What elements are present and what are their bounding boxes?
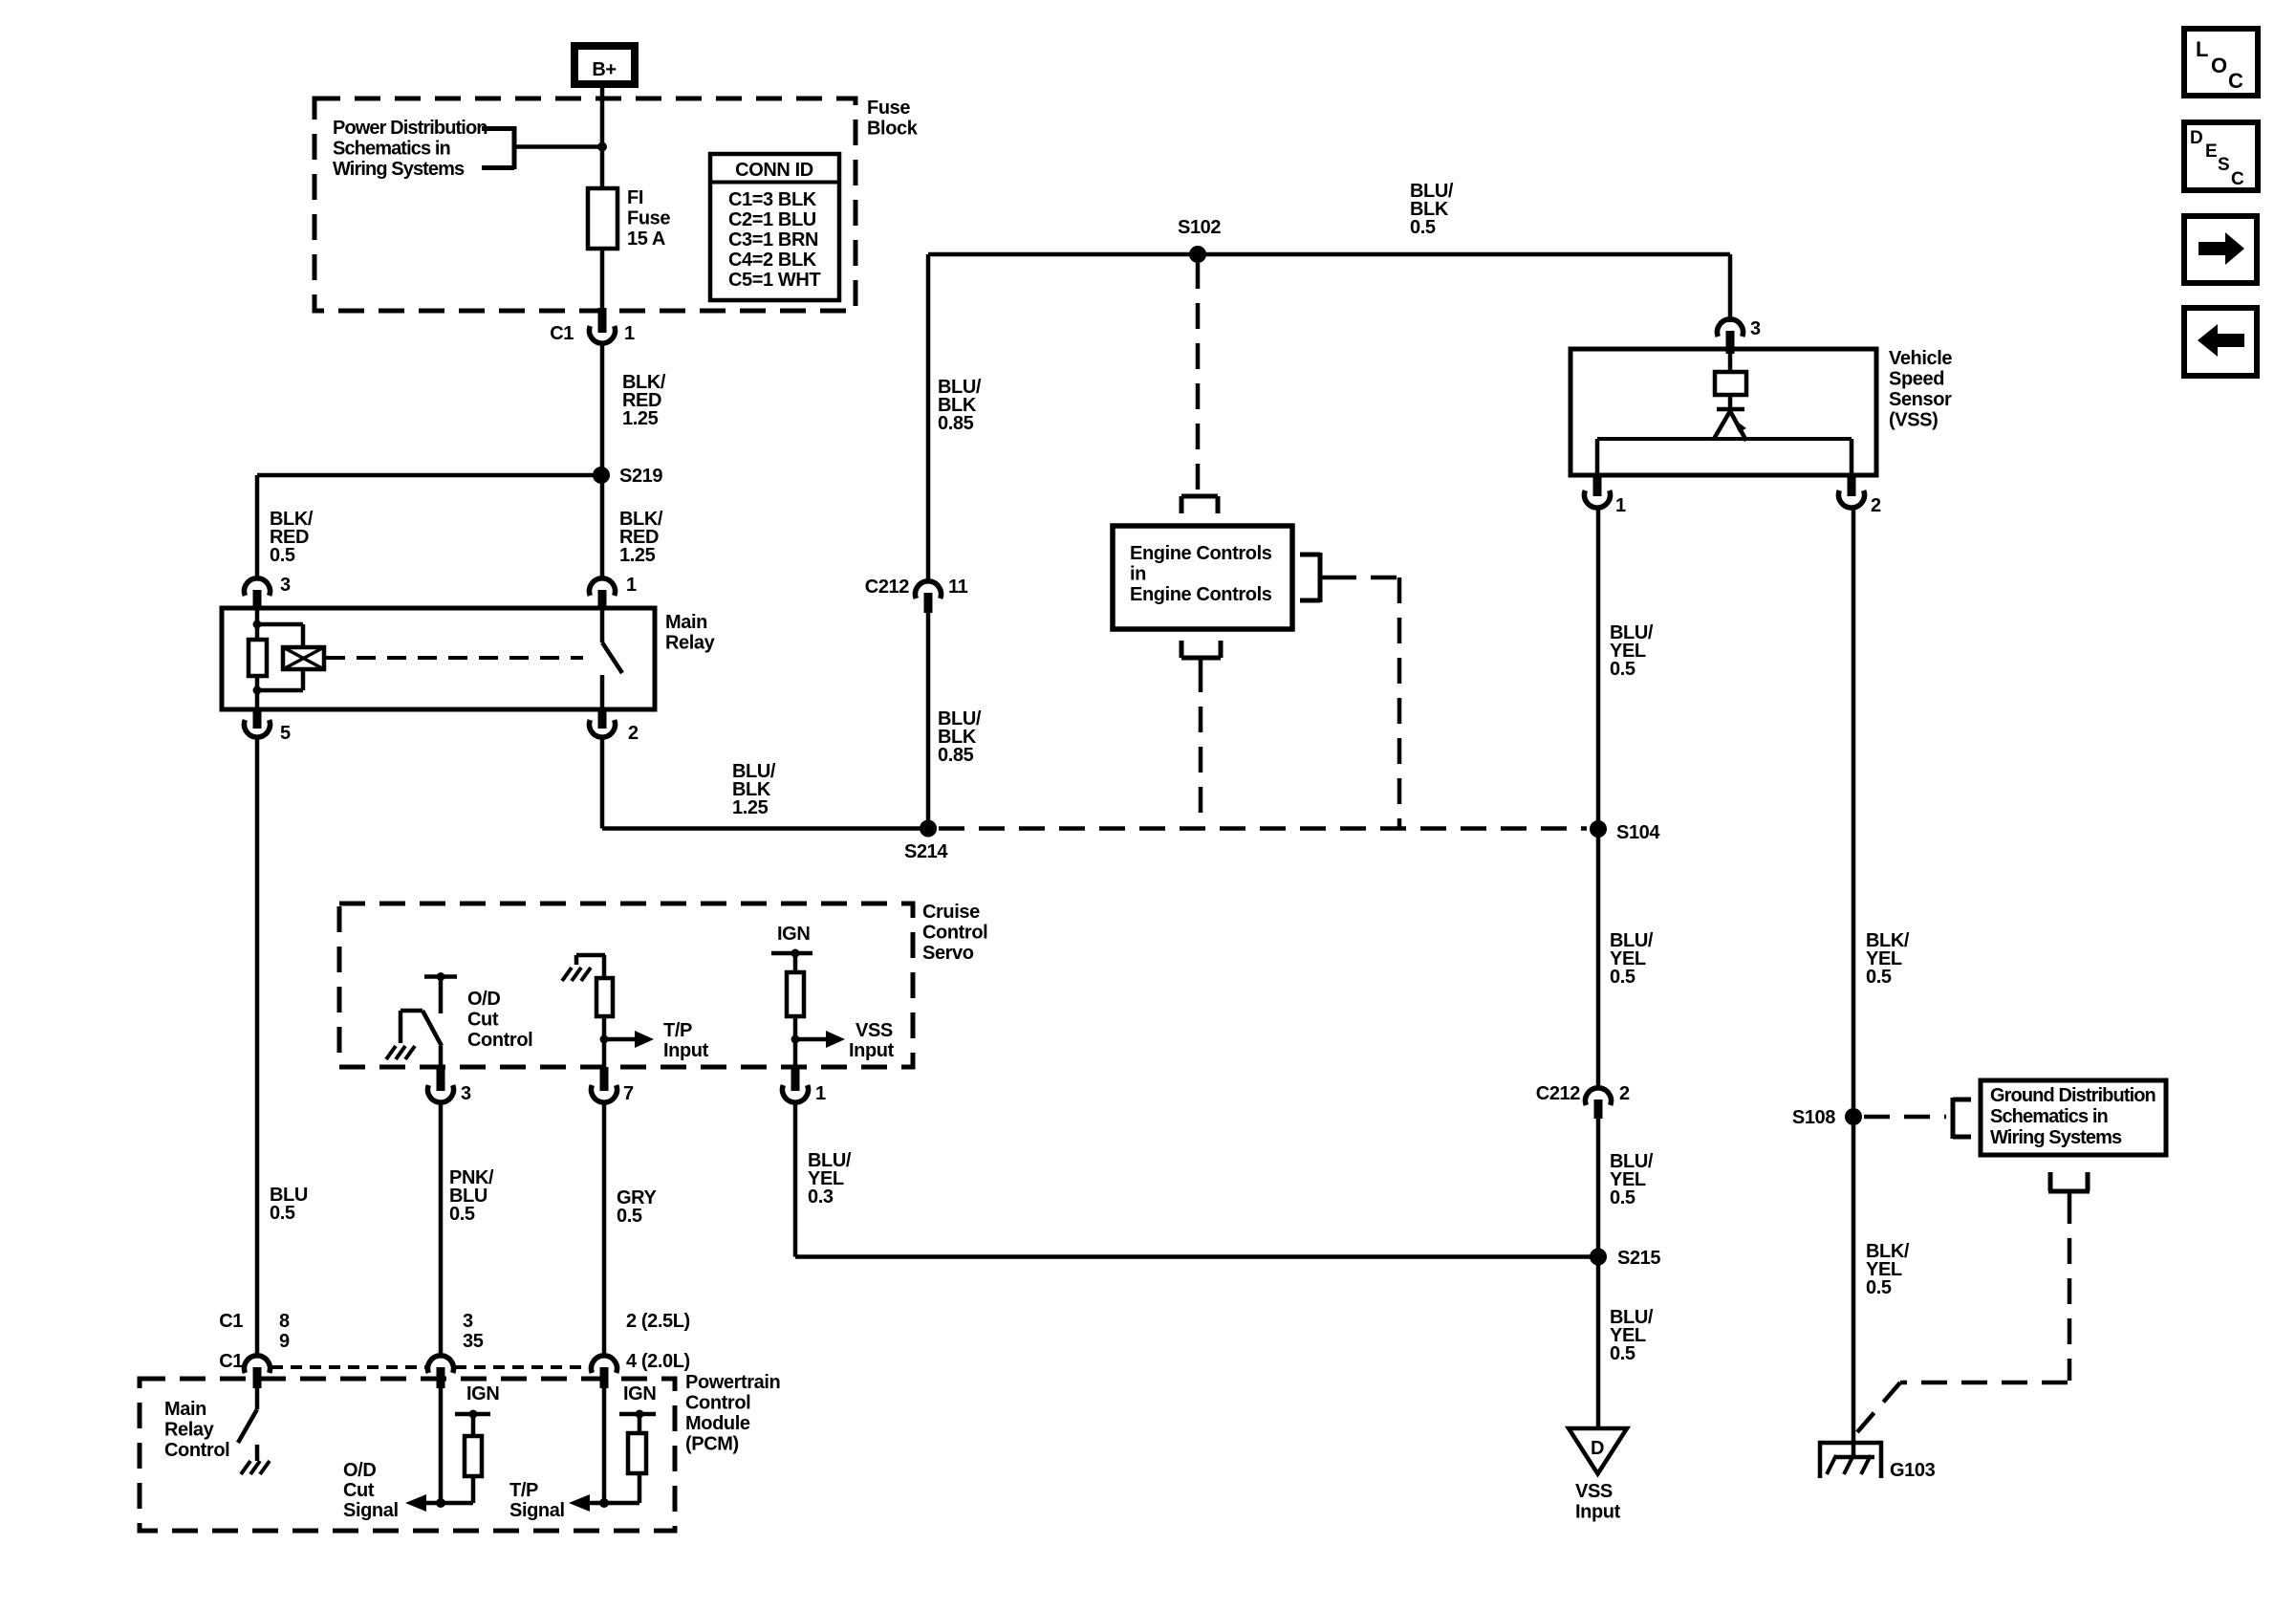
svg-text:L: L	[2196, 37, 2208, 61]
svg-text:35: 35	[463, 1331, 484, 1352]
svg-text:C4=2 BLK: C4=2 BLK	[728, 250, 817, 271]
svg-text:Control: Control	[685, 1393, 750, 1414]
wire VSS pin 1 to C212 pin 2	[1596, 507, 1601, 1089]
wire relay pin 2 to S214	[602, 736, 922, 829]
T/P input sense circuit	[562, 955, 654, 1091]
svg-text:C2=1 BLU: C2=1 BLU	[728, 209, 816, 230]
svg-text:0.5: 0.5	[1866, 1277, 1892, 1298]
main relay box	[222, 608, 655, 709]
svg-text:FI: FI	[627, 187, 643, 208]
svg-text:C212: C212	[1536, 1083, 1580, 1104]
splice S215	[1590, 1248, 1660, 1269]
svg-text:Control: Control	[164, 1440, 229, 1461]
wire B+ to fuse	[600, 88, 605, 188]
dashed wire ground distribution to G103	[1857, 1198, 2069, 1432]
svg-text:11: 11	[948, 577, 968, 598]
vehicle speed sensor box	[1570, 349, 1876, 475]
svg-text:C1: C1	[550, 323, 574, 344]
VSS input sense circuit with IGN	[771, 924, 845, 1091]
wire C212 pin 2 to VSS input terminal	[1596, 1119, 1601, 1428]
wire S219 branch left	[257, 475, 601, 579]
svg-text:(PCM): (PCM)	[685, 1434, 739, 1455]
svg-text:0.85: 0.85	[938, 745, 974, 766]
svg-text:S108: S108	[1792, 1107, 1835, 1128]
svg-text:0.85: 0.85	[938, 413, 974, 434]
svg-text:2 (2.5L): 2 (2.5L)	[626, 1311, 690, 1332]
svg-text:S: S	[2218, 155, 2230, 175]
svg-text:1: 1	[1615, 495, 1626, 516]
svg-text:Schematics in: Schematics in	[1990, 1106, 2108, 1127]
wire servo pin 3 to PCM	[439, 1101, 444, 1357]
svg-text:8: 8	[279, 1311, 290, 1332]
T/P input label	[663, 1020, 709, 1061]
svg-text:2: 2	[1619, 1083, 1630, 1104]
svg-text:S215: S215	[1617, 1248, 1660, 1269]
svg-text:7: 7	[623, 1083, 634, 1104]
connector C1 pin 1	[550, 308, 635, 344]
svg-text:CONN ID: CONN ID	[735, 160, 813, 181]
svg-text:Fuse: Fuse	[627, 208, 670, 229]
svg-text:Power Distribution: Power Distribution	[333, 118, 487, 139]
svg-text:5: 5	[280, 723, 291, 744]
svg-text:3: 3	[461, 1083, 471, 1104]
svg-text:Powertrain: Powertrain	[685, 1372, 780, 1393]
svg-text:15 A: 15 A	[627, 229, 665, 250]
svg-text:(VSS): (VSS)	[1889, 410, 1938, 431]
bracket ground distribution	[1953, 1098, 1971, 1139]
splice S214	[904, 820, 948, 863]
svg-text:C: C	[2228, 69, 2243, 93]
svg-text:Vehicle: Vehicle	[1889, 348, 1952, 369]
svg-text:Signal: Signal	[509, 1500, 565, 1521]
svg-text:Fuse: Fuse	[867, 98, 910, 119]
svg-text:1.25: 1.25	[732, 797, 769, 818]
svg-text:Servo: Servo	[922, 943, 974, 964]
svg-text:3: 3	[463, 1311, 473, 1332]
svg-text:Engine Controls: Engine Controls	[1130, 584, 1272, 605]
svg-text:Wiring Systems: Wiring Systems	[333, 159, 465, 180]
svg-text:Speed: Speed	[1889, 369, 1944, 390]
svg-text:1.25: 1.25	[619, 545, 656, 566]
svg-text:Block: Block	[867, 119, 919, 140]
svg-text:O/D: O/D	[343, 1460, 376, 1481]
svg-text:2: 2	[1871, 495, 1881, 516]
icon box DESC	[2184, 122, 2258, 190]
svg-text:Cut: Cut	[467, 1010, 499, 1031]
svg-text:0.5: 0.5	[1610, 1187, 1635, 1208]
CONN ID table	[710, 154, 839, 300]
svg-text:Wiring Systems: Wiring Systems	[1990, 1127, 2122, 1148]
svg-text:Relay: Relay	[164, 1420, 215, 1441]
svg-text:Sensor: Sensor	[1889, 389, 1952, 410]
PCM connector face dashed line	[271, 1365, 589, 1369]
svg-text:4 (2.0L): 4 (2.0L)	[626, 1351, 690, 1372]
splice S219	[593, 466, 662, 487]
bracket ground distribution bottom	[2048, 1172, 2090, 1198]
svg-text:1: 1	[815, 1083, 826, 1104]
splice S108	[1792, 1107, 1862, 1128]
svg-text:0.5: 0.5	[1610, 1343, 1635, 1364]
wire fuse to connector C1	[600, 249, 605, 330]
svg-text:0.5: 0.5	[617, 1206, 642, 1227]
svg-text:VSS: VSS	[1575, 1481, 1613, 1502]
svg-text:D: D	[1591, 1438, 1604, 1459]
svg-text:0.5: 0.5	[270, 1203, 295, 1224]
wire C1 to S219	[600, 342, 605, 579]
engine controls box	[1113, 526, 1292, 629]
svg-text:Main: Main	[665, 612, 707, 633]
svg-text:D: D	[2190, 128, 2203, 148]
fuse block dashed box	[314, 98, 856, 311]
svg-text:IGN: IGN	[623, 1383, 656, 1404]
svg-text:Main: Main	[164, 1399, 206, 1420]
connector servo pin 7	[592, 1067, 634, 1104]
dashed wire S108 to ground distribution	[1864, 1115, 1946, 1120]
svg-text:Signal: Signal	[343, 1500, 399, 1521]
powertrain control module dashed box	[140, 1379, 675, 1531]
svg-text:G103: G103	[1890, 1460, 1936, 1481]
svg-text:IGN: IGN	[777, 924, 810, 945]
splice S102	[1178, 217, 1221, 263]
svg-text:VSS: VSS	[856, 1020, 893, 1041]
svg-text:C5=1 WHT: C5=1 WHT	[728, 270, 820, 291]
svg-text:0.5: 0.5	[270, 545, 295, 566]
svg-text:9: 9	[279, 1331, 290, 1352]
dashed wire engine controls right to S104 run	[1331, 577, 1399, 828]
connector VSS pin 1	[1585, 475, 1626, 516]
O/D cut signal circuit	[405, 1383, 499, 1512]
svg-text:1: 1	[626, 575, 637, 596]
bracket to power distribution	[482, 126, 602, 169]
svg-text:B+: B+	[592, 59, 616, 80]
VSS input label	[849, 1020, 895, 1061]
svg-text:C1: C1	[219, 1351, 243, 1372]
T/P signal circuit	[569, 1383, 656, 1512]
svg-text:0.3: 0.3	[808, 1186, 834, 1208]
dashed wire S214 to S104	[939, 826, 1587, 831]
cruise control servo dashed box	[339, 903, 913, 1067]
wire servo pin 1 down	[793, 1101, 798, 1257]
main relay control switch	[238, 1388, 270, 1474]
svg-text:0.5: 0.5	[1610, 967, 1635, 988]
svg-text:in: in	[1130, 564, 1146, 585]
wire C212-11 to S214	[926, 612, 931, 829]
svg-text:0.5: 0.5	[1610, 659, 1635, 680]
wire VSS pin 2 to G103	[1852, 507, 1856, 1443]
connector PCM pins 3-35	[428, 1311, 484, 1388]
svg-text:O/D: O/D	[467, 989, 500, 1010]
svg-text:0.5: 0.5	[1410, 217, 1436, 238]
svg-text:S214: S214	[904, 841, 948, 862]
bracket engine controls bottom	[1181, 641, 1221, 666]
connector main relay pin 3	[245, 575, 292, 608]
svg-text:T/P: T/P	[663, 1020, 692, 1041]
svg-text:IGN: IGN	[466, 1383, 499, 1404]
svg-text:C: C	[2231, 169, 2244, 189]
svg-text:O: O	[2211, 54, 2227, 77]
svg-text:Control: Control	[922, 923, 987, 944]
node power distribution tap	[597, 142, 607, 152]
svg-text:S104: S104	[1616, 822, 1660, 843]
svg-text:Input: Input	[1575, 1502, 1621, 1523]
svg-text:E: E	[2205, 142, 2218, 162]
svg-text:T/P: T/P	[509, 1480, 538, 1501]
connector C212 pin 2	[1536, 1083, 1630, 1119]
connector PCM C1 pins 8-9	[219, 1311, 290, 1388]
svg-text:0.5: 0.5	[449, 1204, 475, 1225]
svg-text:Input: Input	[849, 1040, 895, 1061]
power source B+	[574, 46, 635, 84]
O/D cut control switch	[386, 972, 457, 1091]
dashed wire S102 to engine controls	[1196, 263, 1201, 491]
svg-text:C212: C212	[865, 577, 909, 598]
svg-text:Engine Controls: Engine Controls	[1130, 543, 1272, 564]
terminal VSS Input triangle D	[1569, 1428, 1627, 1523]
svg-text:Module: Module	[685, 1413, 750, 1434]
svg-text:1: 1	[624, 323, 635, 344]
main relay actuating dashed link	[326, 656, 583, 660]
connector servo pin 1	[783, 1067, 827, 1104]
bracket engine controls top	[1181, 496, 1218, 513]
svg-text:C1: C1	[219, 1311, 243, 1332]
svg-text:Cut: Cut	[343, 1480, 375, 1501]
svg-text:Control: Control	[467, 1030, 532, 1051]
icon box previous-page arrow	[2184, 308, 2257, 376]
ground distribution box	[1981, 1080, 2166, 1155]
wire servo pin 7 to PCM	[602, 1101, 607, 1357]
ground G103	[1818, 1441, 1936, 1481]
svg-text:3: 3	[280, 575, 291, 596]
wire servo pin1 to S215	[795, 1254, 1598, 1259]
svg-text:C3=1 BRN: C3=1 BRN	[728, 229, 818, 250]
connector PCM pins 2-4	[592, 1311, 690, 1388]
svg-text:1.25: 1.25	[622, 408, 659, 429]
splice S104	[1590, 820, 1660, 843]
svg-text:0.5: 0.5	[1866, 967, 1892, 988]
fuse FI 15A	[588, 188, 617, 249]
svg-text:Cruise: Cruise	[922, 902, 980, 923]
connector C212 pin 11	[865, 577, 968, 613]
main relay switch	[602, 608, 622, 709]
icon box LOC	[2184, 29, 2258, 96]
svg-text:C1=3 BLK: C1=3 BLK	[728, 189, 817, 210]
main relay coil circuit	[249, 608, 324, 709]
svg-text:3: 3	[1750, 318, 1761, 339]
svg-text:S102: S102	[1178, 217, 1221, 238]
wire relay pin 5 to PCM	[255, 736, 260, 1357]
connector main relay pin 5	[245, 709, 292, 744]
svg-text:Relay: Relay	[665, 633, 716, 654]
connector main relay pin 1	[590, 575, 638, 608]
dashed wire engine controls bottom	[1199, 666, 1203, 826]
connector servo pin 3	[428, 1067, 471, 1104]
connector main relay pin 2	[590, 709, 639, 744]
svg-text:2: 2	[628, 723, 639, 744]
wire down to VSS pin 3	[1728, 254, 1733, 322]
bracket engine controls right	[1300, 553, 1331, 602]
svg-text:S219: S219	[619, 466, 662, 487]
wire corner to top run	[928, 254, 1730, 582]
svg-text:Input: Input	[663, 1040, 709, 1061]
icon box next-page arrow	[2184, 216, 2257, 283]
connector VSS pin 3	[1718, 318, 1762, 354]
connector VSS pin 2	[1839, 475, 1882, 516]
svg-text:Schematics in: Schematics in	[333, 139, 450, 160]
VSS internal sensor element	[1597, 354, 1852, 475]
svg-text:Ground Distribution: Ground Distribution	[1990, 1085, 2155, 1106]
